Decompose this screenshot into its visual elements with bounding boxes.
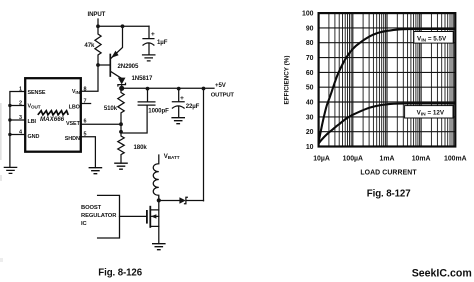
svg-text:70: 70 [306,55,314,62]
svg-text:60: 60 [306,70,314,77]
svg-text:MAX666: MAX666 [40,116,65,123]
svg-text:100: 100 [302,11,314,18]
svg-text:Fig. 8-126: Fig. 8-126 [98,268,142,279]
svg-text:VOUT: VOUT [28,104,41,110]
svg-text:1N5817: 1N5817 [132,75,153,82]
svg-text:EFFICIENCY (%): EFFICIENCY (%) [284,56,291,105]
svg-text:47k: 47k [84,42,95,49]
svg-text:10µA: 10µA [313,156,330,163]
svg-text:SENSE: SENSE [28,90,46,96]
svg-text:7: 7 [84,99,87,105]
svg-text:6: 6 [84,119,87,125]
svg-text:LBO: LBO [69,105,80,111]
svg-text:22µF: 22µF [186,103,200,110]
svg-text:VSET: VSET [66,121,81,127]
svg-text:4: 4 [19,130,22,136]
svg-text:IC: IC [81,221,88,227]
svg-text:180k: 180k [134,144,148,151]
svg-text:+5V: +5V [215,82,227,89]
svg-text:+: + [180,95,184,102]
svg-text:SHDN: SHDN [65,136,80,142]
svg-text:+: + [151,31,155,38]
svg-text:2: 2 [19,101,22,107]
svg-text:SeekIC.com: SeekIC.com [412,267,472,279]
svg-text:LOAD CURRENT: LOAD CURRENT [360,170,417,177]
svg-text:1mA: 1mA [380,156,395,163]
svg-text:100mA: 100mA [444,156,467,163]
svg-text:40: 40 [306,100,314,107]
svg-text:50: 50 [306,85,314,92]
svg-text:1µF: 1µF [157,39,168,46]
svg-text:80: 80 [306,40,314,47]
svg-text:VBATT: VBATT [164,153,180,160]
svg-text:VIN: VIN [72,89,81,95]
svg-text:OUTPUT: OUTPUT [211,93,235,99]
svg-text:100µA: 100µA [343,156,363,163]
svg-text:10mA: 10mA [412,156,431,163]
svg-text:5: 5 [84,132,87,138]
svg-text:10: 10 [306,144,314,151]
svg-text:REGULATOR: REGULATOR [81,213,117,219]
svg-text:INPUT: INPUT [88,11,106,18]
svg-text:LBI: LBI [28,119,37,125]
svg-text:2N2905: 2N2905 [118,63,139,70]
svg-text:8: 8 [84,86,87,92]
svg-text:1000pF: 1000pF [148,108,169,115]
svg-text:Fig. 8-127: Fig. 8-127 [367,188,411,199]
svg-text:510k: 510k [104,105,118,112]
svg-text:GND: GND [28,134,40,140]
svg-text:3: 3 [19,115,22,121]
svg-text:90: 90 [306,25,314,32]
svg-text:1: 1 [19,87,22,93]
svg-text:20: 20 [306,129,314,136]
svg-text:30: 30 [306,114,314,121]
svg-text:BOOST: BOOST [81,205,102,211]
